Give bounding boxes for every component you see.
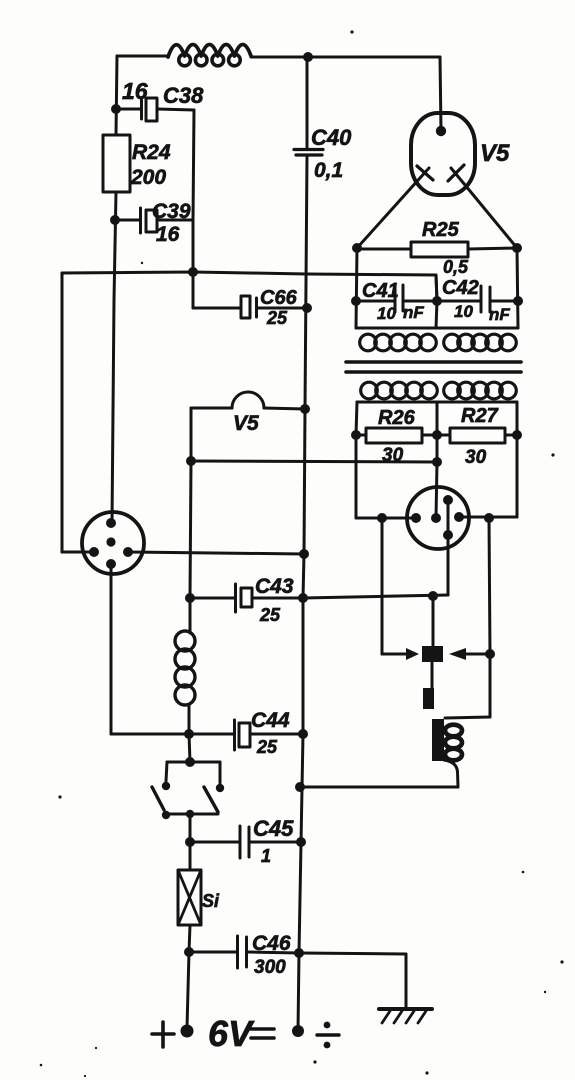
svg-text:C66: C66 — [260, 287, 298, 309]
svg-text:Si: Si — [202, 891, 220, 911]
svg-text:C40: C40 — [311, 125, 352, 150]
svg-text:C38: C38 — [163, 83, 204, 108]
svg-text:10: 10 — [377, 304, 396, 323]
svg-text:25: 25 — [259, 605, 281, 625]
svg-text:C43: C43 — [255, 575, 294, 598]
svg-text:10: 10 — [454, 302, 473, 321]
svg-text:C46: C46 — [252, 932, 291, 955]
svg-text:nF: nF — [489, 305, 510, 324]
svg-text:C44: C44 — [251, 709, 290, 732]
svg-text:300: 300 — [254, 957, 286, 978]
svg-text:16: 16 — [156, 223, 180, 246]
svg-text:25: 25 — [256, 737, 278, 757]
svg-text:6V: 6V — [208, 1013, 255, 1054]
svg-text:R24: R24 — [132, 141, 171, 164]
svg-text:V5: V5 — [480, 140, 510, 167]
svg-text:C41: C41 — [362, 280, 399, 302]
svg-text:V5: V5 — [233, 412, 259, 435]
svg-text:R27: R27 — [461, 405, 499, 427]
svg-text:0,1: 0,1 — [314, 159, 343, 182]
svg-text:C39: C39 — [152, 200, 191, 223]
svg-text:R25: R25 — [422, 219, 460, 241]
svg-text:R26: R26 — [378, 407, 416, 429]
svg-text:200: 200 — [130, 166, 166, 189]
svg-text:16: 16 — [122, 78, 148, 104]
svg-text:C42: C42 — [442, 277, 479, 299]
svg-text:0,5: 0,5 — [443, 257, 469, 277]
svg-text:1: 1 — [261, 846, 271, 866]
svg-text:30: 30 — [382, 445, 404, 466]
svg-text:25: 25 — [266, 308, 288, 328]
svg-text:30: 30 — [465, 447, 487, 468]
svg-text:C45: C45 — [253, 816, 294, 841]
svg-text:nF: nF — [403, 303, 424, 322]
